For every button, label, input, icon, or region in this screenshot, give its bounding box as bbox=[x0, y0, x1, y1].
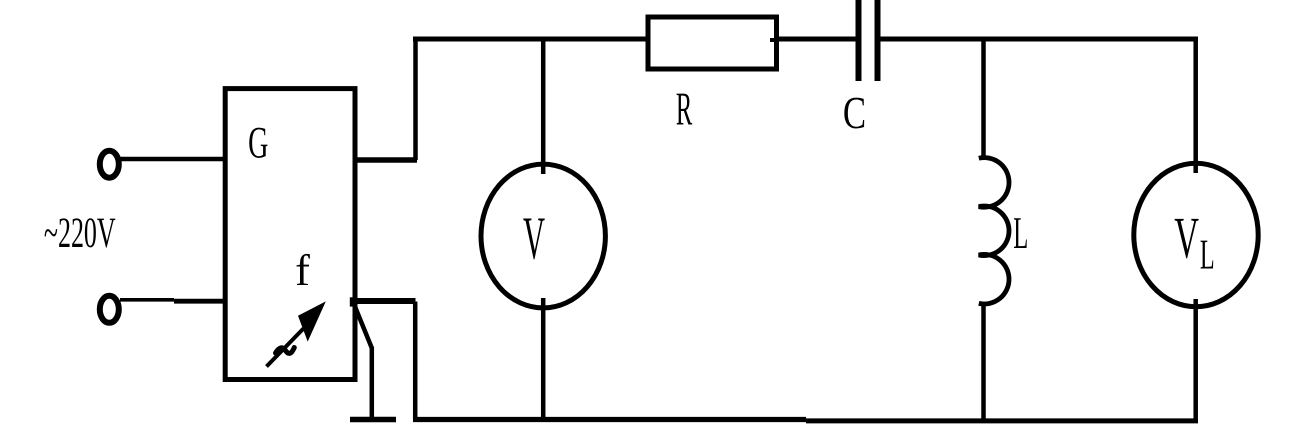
svg-text:L: L bbox=[1013, 207, 1028, 258]
svg-text:f: f bbox=[295, 246, 310, 295]
svg-text:R: R bbox=[676, 83, 693, 135]
svg-text:G: G bbox=[248, 118, 268, 168]
svg-text:C: C bbox=[843, 87, 866, 138]
svg-text:V: V bbox=[1174, 205, 1199, 271]
svg-text:L: L bbox=[1200, 232, 1215, 279]
svg-text:V: V bbox=[523, 206, 545, 273]
svg-text:~220V: ~220V bbox=[44, 209, 116, 257]
